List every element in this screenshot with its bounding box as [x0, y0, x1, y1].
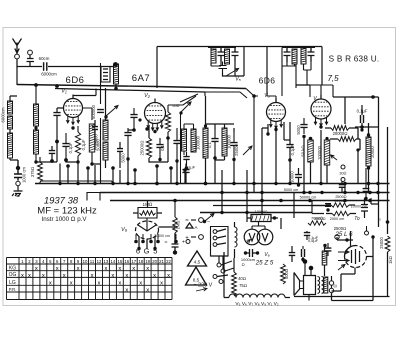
svg-text:500000: 500000	[91, 104, 96, 119]
node y127	[360, 125, 364, 129]
wire V2 misc	[128, 126, 168, 162]
tube V4 75	[311, 99, 331, 119]
svg-text:400Ω: 400Ω	[284, 269, 289, 279]
svg-text:x: x	[118, 281, 121, 287]
svg-text:x: x	[160, 281, 163, 287]
wire x100	[100, 63, 102, 184]
svg-text:I₅: I₅	[378, 216, 381, 221]
capacitor C-V3	[286, 145, 293, 148]
svg-text:22: 22	[166, 259, 171, 264]
node C-r2	[297, 183, 300, 186]
node bus y163	[66, 164, 70, 168]
resistor R-V4b	[338, 137, 356, 142]
wire right link	[332, 257, 374, 292]
node R-V1k	[76, 160, 79, 163]
coil L9a	[182, 129, 187, 151]
svg-text:x: x	[56, 266, 59, 272]
tube V3 6D6	[267, 103, 286, 122]
node V3 k	[266, 132, 269, 135]
mains switch arrow	[205, 214, 214, 222]
svg-text:17: 17	[131, 259, 136, 264]
svg-text:V₂: V₂	[144, 93, 151, 99]
svg-text:10: 10	[83, 259, 88, 264]
svg-text:x: x	[49, 281, 52, 287]
tone arrow	[243, 146, 252, 155]
capacitor C-V1 grid	[53, 113, 60, 116]
wire drops stage3	[206, 131, 291, 193]
capacitor C-S2	[183, 157, 189, 160]
svg-text:375Ω: 375Ω	[30, 167, 35, 177]
ground	[12, 186, 23, 197]
left coil L1b	[8, 116, 13, 129]
tube V1 6D6	[64, 99, 83, 118]
25Z5 internals	[249, 222, 268, 241]
svg-text:KG: KG	[9, 266, 16, 272]
antenna	[13, 39, 22, 55]
wire osc drop	[321, 47, 323, 86]
svg-text:25000Ω: 25000Ω	[140, 141, 145, 156]
capacitor C-V1s	[49, 151, 55, 154]
svg-text:x: x	[153, 273, 156, 279]
wire pad1	[208, 48, 236, 67]
wire V2 screen drop	[156, 47, 158, 89]
tube V8 25L6	[345, 246, 367, 268]
wire V8	[354, 268, 356, 275]
wire power h	[312, 201, 365, 219]
svg-text:25000: 25000	[379, 237, 384, 249]
junction b	[368, 191, 371, 194]
svg-text:7,5: 7,5	[327, 74, 339, 83]
wire R-V1s	[91, 152, 93, 165]
svg-text:100000: 100000	[255, 210, 268, 214]
svg-text:x: x	[125, 288, 128, 294]
wire 100000	[247, 217, 278, 219]
wire box left	[16, 67, 18, 86]
output transformer	[318, 277, 320, 294]
svg-text:x: x	[98, 281, 101, 287]
node pins V2	[153, 130, 156, 133]
IF2 coil La	[292, 49, 297, 64]
node C-V1	[55, 140, 58, 143]
junction b	[343, 191, 346, 194]
svg-text:20000: 20000	[370, 146, 375, 158]
node pins V1	[71, 126, 74, 129]
junction	[343, 182, 346, 185]
capacitor C-p1	[326, 208, 329, 211]
wire V4 right	[333, 97, 379, 150]
svg-text:60cm: 60cm	[39, 56, 50, 61]
wire power verticals	[222, 184, 294, 230]
A terminal	[186, 223, 193, 228]
svg-text:x: x	[125, 273, 128, 279]
tuning coil L2	[114, 64, 119, 84]
wire osc net	[223, 47, 245, 77]
svg-text:1kΩ: 1kΩ	[388, 256, 393, 264]
svg-text:5000 cm: 5000 cm	[284, 188, 299, 192]
wire right verticals	[345, 97, 388, 234]
svg-text:x: x	[42, 273, 45, 279]
capacitor C-x100	[97, 110, 104, 113]
wire S2	[181, 114, 194, 184]
wire V3 pins	[262, 122, 284, 170]
wire bottom right net	[211, 237, 390, 301]
svg-text:30000 cm: 30000 cm	[154, 234, 170, 238]
left coil L1c	[8, 133, 13, 158]
resistor mains R	[38, 162, 43, 182]
heater chain coil	[229, 294, 285, 298]
capacitor C-V2a	[130, 115, 137, 118]
tube V9 6G5	[136, 221, 159, 239]
svg-text:50 kΩ: 50 kΩ	[301, 145, 306, 156]
wire R-V2g	[167, 105, 169, 140]
svg-text:6D6: 6D6	[66, 75, 85, 86]
svg-text:Ω: Ω	[241, 262, 244, 267]
svg-text:x: x	[118, 266, 121, 272]
junction	[126, 182, 129, 185]
coil L5b	[34, 130, 39, 154]
node t2	[114, 87, 118, 91]
wire R-V1k	[77, 126, 79, 162]
wire bus B+	[100, 192, 390, 194]
capacitor C-IF2	[230, 143, 237, 146]
earth terminal	[28, 50, 33, 55]
resistor 4000	[281, 264, 286, 284]
node t1	[55, 140, 59, 144]
svg-text:x: x	[63, 273, 66, 279]
node after 100000	[273, 216, 276, 219]
svg-text:Instr 1000 Ω p.V: Instr 1000 Ω p.V	[42, 216, 88, 223]
node coil top	[113, 62, 118, 67]
svg-text:0,1µF: 0,1µF	[68, 142, 73, 153]
pot arrow	[331, 155, 338, 160]
coil L7	[203, 128, 208, 158]
node R-V1s	[90, 162, 93, 165]
svg-text:4,5: 4,5	[194, 260, 201, 265]
resistor R-V4a	[331, 126, 349, 131]
junction	[76, 182, 79, 185]
svg-text:0,1µF: 0,1µF	[308, 235, 319, 240]
svg-text:50000 cm: 50000 cm	[300, 196, 317, 200]
table wave-range grid	[7, 258, 173, 300]
wire V1 bottom links	[36, 142, 100, 165]
junction	[274, 182, 277, 185]
svg-text:V₅ V₆ V₇ V₈ V₉ V₁ V₂: V₅ V₆ V₇ V₈ V₉ V₁ V₂	[235, 301, 278, 307]
node C-V2k	[158, 158, 161, 161]
svg-text:x: x	[28, 273, 31, 279]
svg-text:50Ω: 50Ω	[172, 104, 179, 108]
svg-text:x: x	[104, 266, 107, 272]
wire osc line	[253, 96, 255, 160]
node C-V2b	[126, 157, 129, 160]
svg-text:50000: 50000	[96, 139, 101, 151]
svg-text:5000: 5000	[121, 153, 126, 163]
junction	[319, 182, 322, 185]
band switch arrow	[226, 69, 239, 77]
fuse box	[87, 193, 100, 201]
wire antenna to input	[17, 59, 113, 67]
node C-V4g	[302, 135, 305, 138]
mains series cap	[16, 166, 20, 170]
capacitor C-r1	[339, 185, 345, 188]
osc coil L4	[225, 49, 230, 64]
svg-text:25 Z 5: 25 Z 5	[255, 260, 274, 267]
wire heater ends	[224, 256, 290, 298]
capacitor C-out1	[304, 233, 310, 236]
resistor R-1M2	[173, 217, 178, 233]
node right	[371, 235, 374, 238]
volume pot	[324, 140, 330, 165]
wire L5	[35, 85, 37, 162]
left coil L1a	[8, 101, 13, 114]
wire V1 top link	[73, 89, 96, 96]
svg-text:≈: ≈	[165, 240, 168, 246]
svg-text:11: 11	[90, 259, 95, 264]
capacitor C-25Z5	[244, 251, 247, 254]
svg-text:18: 18	[138, 259, 143, 264]
wire left column	[10, 96, 18, 160]
wire V3 anode	[284, 139, 290, 141]
svg-text:Ω: Ω	[333, 284, 338, 287]
wire osc top right	[168, 94, 198, 105]
terminal strip	[134, 240, 138, 244]
svg-text:30Ω: 30Ω	[339, 172, 346, 176]
svg-text:S B R 638 U.: S B R 638 U.	[329, 55, 380, 64]
osc capacitor C-pad2	[232, 47, 239, 62]
svg-text:75Ω: 75Ω	[239, 283, 247, 288]
svg-text:P.R.: P.R.	[9, 287, 17, 292]
node V9c	[153, 247, 156, 250]
svg-text:x: x	[146, 266, 149, 272]
node coil rb	[367, 166, 370, 169]
svg-text:x: x	[77, 266, 80, 272]
terminals 110V	[329, 281, 333, 285]
svg-text:0,1: 0,1	[160, 144, 165, 150]
osc capacitor C-pad1	[218, 47, 225, 63]
svg-text:100000: 100000	[227, 134, 232, 149]
resistor R-V2k	[146, 138, 151, 158]
coil L6b	[103, 142, 108, 160]
wire bus mains	[200, 212, 312, 214]
switch S1 arrow	[106, 106, 118, 117]
svg-text:x: x	[35, 266, 38, 272]
IF2 capacitor	[284, 47, 291, 63]
resistor 40ohm	[232, 272, 237, 296]
wire L6	[106, 84, 117, 168]
capacitor C-r2	[295, 175, 302, 178]
resistor 100000 box	[251, 215, 271, 222]
svg-text:2500Ω: 2500Ω	[335, 195, 346, 199]
wire IF2 drops	[296, 62, 311, 89]
triangle 4.5V	[188, 251, 207, 266]
junction	[175, 182, 178, 185]
wire bus AVC	[35, 183, 390, 185]
node coil rt	[367, 133, 370, 136]
svg-text:0,1: 0,1	[207, 141, 212, 147]
speaker	[294, 273, 300, 296]
barretter loops	[235, 227, 238, 247]
wire bus heater	[110, 200, 390, 202]
node pins V4	[319, 125, 322, 128]
wire selector	[219, 256, 234, 272]
node C-IF2	[232, 158, 235, 161]
capacitor C-AF	[182, 170, 189, 173]
IF2 coil Lb	[301, 48, 306, 64]
wire grid bus 2b	[55, 89, 205, 93]
node C-V9	[173, 250, 177, 254]
antenna terminal	[15, 54, 20, 59]
switch contacts	[213, 230, 217, 234]
IF2 capacitor b	[308, 47, 315, 62]
wire grid bus 1	[17, 85, 246, 89]
svg-text:x: x	[167, 273, 170, 279]
capacitor C-right2	[363, 189, 370, 192]
svg-text:V₅: V₅	[235, 77, 241, 83]
wire drops stage4	[304, 130, 378, 193]
svg-text:14: 14	[110, 259, 115, 264]
coil right tall	[366, 137, 371, 166]
capacitor C-V1k	[62, 144, 69, 147]
mains terminal	[16, 181, 20, 185]
coil L6a	[103, 120, 108, 140]
svg-text:V₆: V₆	[264, 252, 270, 258]
tube V6 25Z5 b	[257, 229, 273, 245]
junction	[155, 182, 158, 185]
capacitor C-V2k	[156, 145, 163, 148]
junction b	[376, 191, 379, 194]
svg-text:21: 21	[159, 259, 164, 264]
resistor 1k right	[385, 236, 390, 252]
capacitor C-x1	[117, 149, 123, 152]
wire R-V4	[325, 128, 360, 139]
capacitor C-V4g	[300, 125, 307, 128]
capacitor C-V9	[172, 233, 179, 251]
junction b	[302, 191, 305, 194]
svg-text:5000Ω: 5000Ω	[314, 217, 325, 221]
wire bus aux	[213, 205, 331, 207]
svg-text:x: x	[70, 281, 73, 287]
node mains1	[220, 211, 223, 214]
wire IF2 top	[282, 48, 315, 97]
junction b	[260, 191, 263, 194]
svg-text:A: A	[194, 225, 197, 230]
wire bus drops row	[60, 159, 185, 184]
svg-text:0,1µF: 0,1µF	[81, 139, 86, 150]
speaker body	[304, 276, 316, 295]
junction	[232, 182, 235, 185]
wire V1 anode	[83, 108, 93, 120]
triangle 8.5V	[186, 267, 207, 285]
svg-text:0,1µF: 0,1µF	[185, 165, 196, 170]
junction b	[356, 191, 359, 194]
small rings right	[341, 165, 345, 169]
junction	[204, 182, 207, 185]
capacitor C-x2	[92, 127, 98, 130]
node t4	[309, 137, 313, 141]
node heater taps	[260, 199, 264, 203]
padder trimmer	[219, 62, 228, 74]
svg-text:12: 12	[97, 259, 102, 264]
wire top right power	[337, 237, 353, 240]
wire top bus	[157, 46, 322, 48]
coil L5a	[34, 104, 39, 126]
node t3	[213, 156, 217, 160]
wire V3 feed	[266, 47, 268, 97]
svg-text:40Ω: 40Ω	[238, 276, 246, 281]
svg-text:100000: 100000	[196, 135, 201, 150]
coil L8	[222, 128, 227, 156]
capacitor C-8uF	[323, 244, 326, 247]
resistor 5000b	[332, 211, 350, 215]
node mains2	[245, 211, 248, 214]
resistor R-V1s	[89, 124, 95, 152]
svg-text:25000: 25000	[234, 144, 239, 156]
node avc taps	[133, 182, 137, 186]
resistor R-diode	[308, 140, 314, 162]
node C-V2s	[175, 159, 178, 162]
wire V3 grid	[267, 96, 276, 102]
capacitor C-IF1	[211, 139, 218, 142]
osc coil L3	[211, 49, 216, 63]
junction b	[245, 191, 248, 194]
junction	[111, 182, 114, 185]
svg-text:6 G 5: 6 G 5	[136, 247, 158, 256]
svg-text:19: 19	[145, 259, 150, 264]
coil L9b	[191, 129, 196, 152]
wire 378 connects	[371, 198, 378, 204]
capacitor C-V2b	[124, 133, 131, 136]
svg-text:x: x	[111, 273, 114, 279]
svg-text:x: x	[139, 281, 142, 287]
node L5	[34, 160, 37, 163]
resistor 250	[308, 221, 326, 225]
wire V4 top	[310, 85, 333, 99]
svg-text:6D6: 6D6	[259, 76, 276, 86]
svg-text:6000cm: 6000cm	[41, 72, 57, 77]
junction	[288, 182, 291, 185]
junction	[376, 182, 379, 185]
node S1	[104, 115, 107, 118]
svg-text:1MΩ: 1MΩ	[176, 220, 181, 229]
svg-text:13: 13	[104, 259, 109, 264]
svg-text:x: x	[132, 266, 135, 272]
voltage selector	[217, 263, 221, 267]
svg-text:LG: LG	[9, 280, 16, 286]
svg-text:6A7: 6A7	[132, 73, 150, 84]
resistor R-V1k	[75, 132, 80, 156]
capacitor C-V2s	[173, 141, 180, 144]
svg-text:15: 15	[117, 259, 122, 264]
svg-text:5000: 5000	[296, 125, 301, 135]
wire barretter	[234, 222, 236, 258]
tube V2 6A7	[145, 103, 166, 124]
junction b	[220, 191, 223, 194]
capacitor C-p2	[361, 205, 368, 212]
wire IF drops	[206, 96, 235, 168]
switch S2 arrow	[181, 102, 191, 112]
resistor 5000a	[331, 203, 349, 207]
capacitor C-out3	[302, 249, 305, 257]
svg-text:1000 cm: 1000 cm	[22, 166, 27, 183]
svg-text:x: x	[91, 273, 94, 279]
svg-text:x: x	[146, 288, 149, 294]
antenna trimmer	[27, 55, 35, 66]
wire C-01	[361, 105, 363, 130]
wire out	[324, 246, 326, 276]
field coil 2	[322, 251, 327, 265]
svg-text:6000cm: 6000cm	[1, 107, 6, 122]
resistor R-V2g	[165, 112, 170, 132]
svg-text:2000 cm: 2000 cm	[330, 217, 345, 221]
